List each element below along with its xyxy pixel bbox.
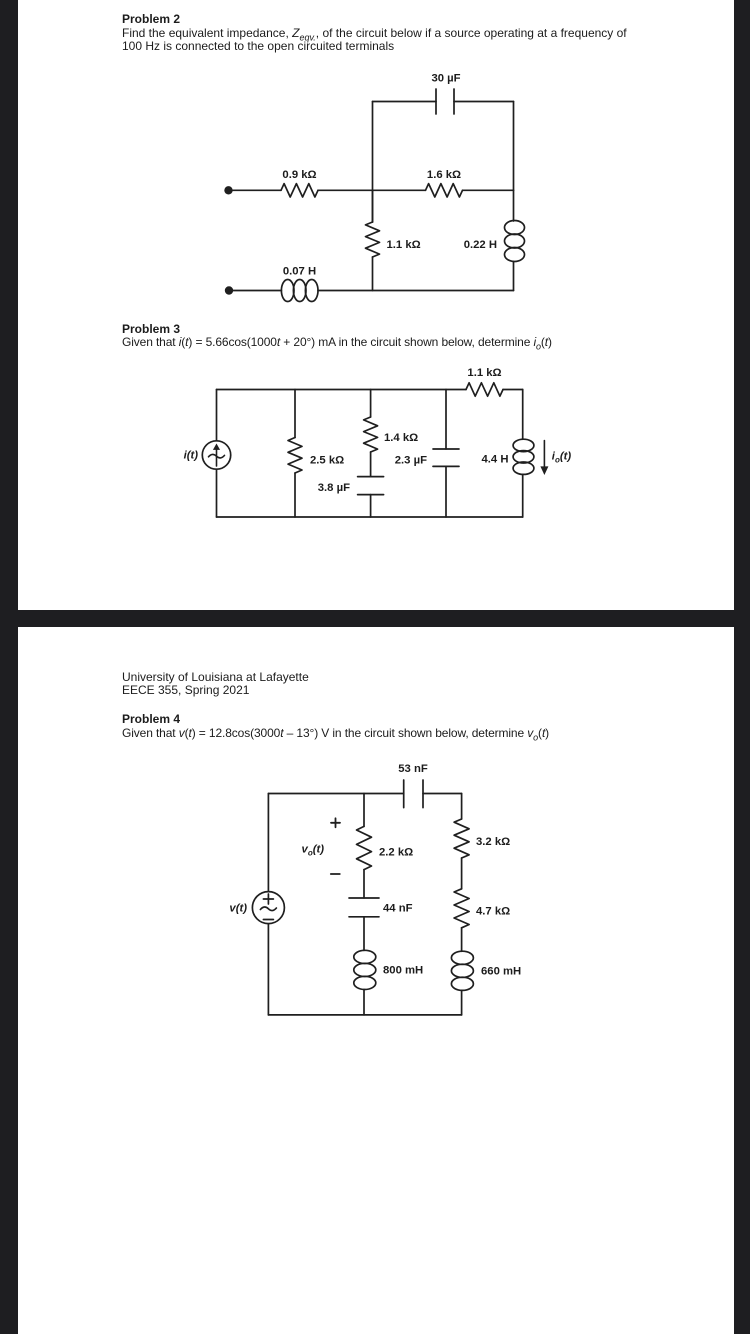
- inductor 660mH coils: [451, 951, 473, 964]
- svg-text:2.2 kΩ: 2.2 kΩ: [379, 847, 413, 859]
- wire middle center: [318, 189, 426, 191]
- CIRCUIT: Problem 4: [0, 627, 750, 1334]
- wire between 3.2k and 4.7k: [461, 858, 463, 889]
- current source i(t): [202, 441, 230, 469]
- wire bottom horizontal: [268, 1014, 461, 1016]
- inductor 0.22H coils: [505, 221, 525, 235]
- svg-text:660 mH: 660 mH: [481, 966, 521, 978]
- wire between 1.4k and 3.8uF: [370, 452, 372, 477]
- wire branch 2.3uF upper lead: [445, 390, 447, 450]
- wire between 44nF and 800mH: [363, 917, 365, 951]
- wire top-right horizontal: [454, 101, 514, 103]
- wire left vertical upper: [267, 794, 269, 892]
- CIRCUIT: Problem 3: [0, 0, 750, 610]
- wire branch 1.4k upper lead: [370, 390, 372, 418]
- wire middle from terminal: [229, 189, 282, 191]
- CIRCUIT: Problem 2: [0, 0, 750, 610]
- label minus: [331, 873, 340, 875]
- capacitor 2.3uF plates: [433, 449, 459, 466]
- wire center vertical lead: [372, 190, 374, 222]
- wire center vertical lower: [372, 257, 374, 291]
- svg-text:2.3 µF: 2.3 µF: [395, 455, 427, 467]
- inductor 0.07H coils: [281, 280, 294, 302]
- wire branch 2.5k upper lead: [294, 390, 296, 438]
- resistor 3.2k: [454, 819, 469, 858]
- wire mid branch upper lead: [363, 794, 365, 827]
- svg-text:53 nF: 53 nF: [398, 763, 428, 775]
- inductor 4.4H coils: [513, 439, 534, 451]
- svg-text:1.1 kΩ: 1.1 kΩ: [467, 367, 501, 379]
- wire branch 2.5k lower lead: [294, 473, 296, 517]
- voltage source v(t): [252, 892, 284, 924]
- svg-text:vo(t): vo(t): [302, 844, 325, 858]
- svg-text:2.5 kΩ: 2.5 kΩ: [310, 455, 344, 467]
- svg-text:44 nF: 44 nF: [383, 903, 413, 915]
- wire right vertical lower: [522, 474, 524, 517]
- wire left vertical upper: [216, 390, 218, 441]
- wire bottom from terminal: [229, 290, 281, 292]
- wire branch 2.3uF lower lead: [445, 466, 447, 517]
- svg-text:1.4 kΩ: 1.4 kΩ: [384, 432, 418, 444]
- wire right vertical upper lead: [461, 794, 463, 820]
- resistor 0.9k: [281, 184, 318, 197]
- wire middle right: [463, 189, 514, 191]
- wire right vertical lower: [513, 262, 515, 291]
- wire branch 3.8uF lower lead: [370, 495, 372, 517]
- capacitor C 30uF plates: [436, 89, 454, 114]
- wire left vertical upper: [372, 102, 374, 223]
- resistor 4.7k: [454, 889, 469, 928]
- capacitor 53nF plates: [404, 780, 423, 808]
- resistor 1.1k vertical: [366, 222, 380, 257]
- svg-text:800 mH: 800 mH: [383, 965, 423, 977]
- resistor 1.4k: [364, 417, 378, 452]
- wire top-right horizontal: [423, 793, 462, 795]
- svg-text:3.8 µF: 3.8 µF: [318, 482, 350, 494]
- wire bottom right: [318, 290, 514, 292]
- node terminal dot upper: [224, 186, 232, 194]
- svg-text:3.2 kΩ: 3.2 kΩ: [476, 836, 510, 848]
- wire top-left horizontal: [373, 101, 437, 103]
- wire right vertical lower lead: [461, 990, 463, 1015]
- wire right vertical mid: [513, 190, 515, 221]
- arrow io(t): [540, 441, 548, 475]
- resistor 2.5k: [288, 438, 302, 474]
- inductor 800mH coils: [354, 950, 376, 963]
- svg-text:4.4 H: 4.4 H: [481, 454, 508, 466]
- capacitor 44nF plates: [349, 898, 379, 917]
- wire between 2.2k and 44nF: [363, 870, 365, 898]
- wire between 4.7k and 660mH: [461, 928, 463, 952]
- wire mid branch lower lead: [363, 990, 365, 1015]
- capacitor 3.8uF plates: [358, 477, 384, 495]
- wire top right corner: [503, 389, 523, 391]
- resistor 1.6k: [426, 184, 463, 197]
- wire top-left horizontal: [268, 793, 403, 795]
- resistor 1.1k top: [466, 383, 503, 396]
- label plus: [331, 818, 340, 827]
- resistor 2.2k: [357, 826, 372, 869]
- wire bottom horizontal: [217, 516, 523, 518]
- wire left vertical lower: [216, 469, 218, 517]
- svg-text:4.7 kΩ: 4.7 kΩ: [476, 906, 510, 918]
- svg-text:i(t): i(t): [184, 450, 199, 462]
- svg-text:io(t): io(t): [552, 451, 572, 465]
- svg-text:v(t): v(t): [229, 903, 247, 915]
- wire right vertical upper: [513, 102, 515, 191]
- wire right vertical upper: [522, 390, 524, 440]
- wire top horizontal: [217, 389, 467, 391]
- node terminal dot lower: [225, 286, 233, 294]
- wire left vertical lower: [267, 924, 269, 1015]
